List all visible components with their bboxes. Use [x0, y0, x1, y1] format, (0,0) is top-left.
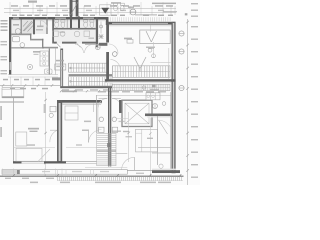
wall: right exterior	[172, 22, 176, 173]
dim tick vertical right room	[148, 42, 154, 58]
wall: mid horizontal right dark	[105, 79, 176, 83]
fixture: washbasin circle	[15, 29, 20, 34]
stair2 center rails	[107, 134, 111, 166]
light fixture symbol corridor	[99, 22, 104, 40]
door leaf br	[159, 120, 171, 134]
wall: closet vertical dark	[60, 49, 63, 89]
top tick texts above wall	[12, 15, 173, 16]
door arc wc-right	[112, 98, 121, 107]
chimney shaft	[70, 0, 79, 17]
wall: br small horizontal	[152, 152, 171, 154]
sill line right of stair2	[116, 153, 127, 155]
fixture rect wc-right	[112, 127, 117, 132]
wall: bedroom left dark	[57, 100, 62, 163]
door arc top-left room	[41, 21, 48, 28]
text above lower rooms	[62, 91, 77, 93]
bottom dim plus ticks	[12, 174, 181, 177]
junction dark block	[52, 77, 60, 80]
wall: living top	[11, 47, 44, 49]
window comb band top-right	[109, 17, 171, 21]
window line br	[138, 147, 171, 149]
top circle marker	[130, 9, 136, 15]
floor wash wc block	[54, 20, 96, 44]
stair walk line	[70, 67, 108, 83]
dim vertical near elevator	[126, 112, 133, 162]
door arc hall 1	[75, 45, 84, 54]
wall: bath mid horizontal	[54, 28, 96, 30]
fixture: sink 2	[74, 31, 89, 37]
wall: lowerleft left	[13, 98, 15, 163]
furniture closet	[65, 106, 78, 120]
wall: br horizontal dark	[145, 114, 172, 118]
right dim ticks	[186, 21, 189, 172]
furniture bed	[16, 132, 27, 146]
floor wash bathroom-left rooms	[11, 20, 48, 35]
top dimension extension ticks	[10, 2, 175, 15]
interior dim thin line	[8, 76, 58, 78]
right small mark	[185, 13, 188, 15]
left rotated text	[0, 106, 2, 137]
interior dim line	[0, 84, 60, 86]
fixture: toilet 2a	[84, 20, 88, 28]
bottom extension lines	[3, 169, 63, 176]
balcony steps left	[0, 88, 24, 102]
wall: living right vertical	[49, 49, 55, 76]
dim line vertical interior	[44, 92, 47, 176]
wall: top exterior (left block)	[9, 17, 108, 21]
symbol circle br	[153, 102, 166, 109]
stair2 landing line	[97, 150, 116, 152]
wall: br inner vertical	[157, 116, 159, 165]
right level circle 2	[179, 49, 184, 54]
slab top edge line	[85, 167, 127, 169]
wall: bottom right dark	[152, 169, 180, 173]
small table bigroom	[127, 40, 133, 44]
fixture: toilet 2b	[90, 20, 94, 28]
room text 1.03	[28, 128, 39, 132]
north/vent triangle marker	[100, 5, 112, 15]
corridor thin line	[96, 94, 171, 96]
stair handrail	[69, 74, 113, 76]
symbol circle bigroom	[113, 52, 118, 57]
text br top	[150, 89, 159, 91]
bottom dimension texts	[5, 178, 171, 184]
door arc bedroom west	[50, 130, 57, 142]
fixture: upper toilet 2	[120, 3, 124, 11]
interior tick bigroom	[146, 25, 155, 48]
symbol circle br low	[159, 164, 163, 168]
stair dimension texts	[60, 89, 111, 92]
small marks right of toilets	[128, 7, 134, 8]
fixture circle wc-left	[99, 117, 103, 121]
stair flight right treads	[113, 66, 171, 78]
door arc wc-left	[98, 98, 107, 107]
wall: left exterior	[9, 17, 11, 75]
wall: wc vertical a	[52, 20, 54, 44]
wall: step between top blocks	[106, 17, 109, 25]
top dimension line 1	[4, 8, 176, 10]
kitchenette top row	[146, 93, 160, 100]
symbol circle right small	[148, 48, 171, 79]
fixture: corridor box	[13, 37, 25, 48]
fixture: small appliance	[45, 69, 53, 74]
fixture: toilet 1b	[61, 20, 65, 28]
wall: bath horizontal	[11, 34, 31, 36]
bedroom inner line	[62, 104, 101, 106]
room text 1.11	[123, 131, 129, 132]
wall: living bottom thin	[8, 74, 58, 76]
wall: wc mid thin	[66, 20, 68, 28]
fixture: table round	[27, 64, 32, 69]
wall: bath vertical 2	[33, 17, 35, 34]
wall: bedroom top dark	[57, 100, 102, 104]
interior dim texts	[3, 79, 50, 90]
door arc bedroom	[89, 130, 102, 143]
elevator shaft walls	[119, 100, 152, 127]
comb ticks bottom	[58, 177, 184, 181]
shelf row under wall	[113, 84, 171, 90]
roof window V symbol	[134, 57, 146, 72]
door arc hall 2	[85, 45, 94, 54]
wall: corridor h below wc	[85, 43, 106, 45]
room text 1.01	[13, 24, 19, 26]
wall: corridor thin double	[96, 95, 98, 133]
label tag left	[49, 106, 56, 117]
door gap arc bigroom	[109, 44, 119, 54]
interior dim vticks	[11, 77, 46, 86]
text above triangle	[111, 2, 121, 4]
top dimension texts	[11, 5, 173, 11]
skylight box	[140, 30, 170, 44]
stair flight lower-left treads	[69, 77, 113, 86]
dim vertical br	[147, 118, 153, 176]
wall: bottom mid thin	[66, 162, 97, 164]
fixture: sink 1	[53, 31, 65, 36]
fixture: toilet 1a	[55, 20, 59, 28]
stair flight upper-left treads	[69, 63, 109, 72]
wall: br inner right face	[170, 92, 172, 171]
top small label left	[28, 1, 37, 3]
wall: corridor dark double	[108, 88, 111, 166]
window bay lower-left	[16, 148, 50, 161]
door arc stair2	[122, 157, 135, 170]
top section label text	[135, 3, 177, 16]
left column texts	[1, 20, 8, 74]
room label box 1.01	[55, 60, 66, 70]
wall: wc horizontal south	[54, 42, 96, 44]
text corridor	[36, 29, 43, 31]
tick line bedroom	[93, 104, 95, 113]
door leaf wc1	[57, 44, 61, 48]
wall: bottom mid-right thin	[127, 170, 152, 174]
window sill line lower	[14, 144, 106, 147]
text wc2	[89, 38, 95, 39]
dim tick above wardrobe	[116, 119, 128, 123]
furniture wardrobe bottom-right	[136, 129, 158, 152]
wall: wc vertical c	[96, 17, 98, 47]
fixture circle wc-right	[112, 117, 116, 121]
fixture: upper toilet 1	[114, 3, 118, 11]
stair2 treads	[97, 134, 116, 166]
elevator cab + cross	[125, 103, 149, 124]
fixture rect wc-left	[99, 127, 104, 132]
right dim vertical line	[187, 19, 189, 185]
corridor dim texts	[98, 91, 166, 93]
door arc bigroom lower	[110, 60, 120, 70]
right column texts	[191, 3, 198, 178]
wall: bigroom left vertical	[106, 22, 109, 80]
terrace slab	[2, 170, 127, 175]
kitchen counter	[40, 51, 49, 66]
text wc1	[60, 32, 66, 33]
wall: top exterior (right block)	[106, 22, 176, 27]
right level circle 3	[179, 85, 184, 90]
top dimension line 2	[4, 12, 176, 14]
ground dimension line	[0, 176, 184, 177]
hatch: shaft room diagonals	[23, 21, 33, 32]
wall: bath vertical 1	[20, 20, 22, 35]
wall: corridor step	[30, 34, 58, 49]
symbol: circle cross hall	[95, 45, 100, 50]
floor wash shaft room	[22, 20, 33, 34]
room text 1.02	[37, 26, 44, 28]
room text 1.04	[82, 121, 91, 131]
paper background	[0, 0, 200, 185]
wall junction corridor south	[99, 43, 108, 46]
wall: shaft wc	[70, 17, 80, 30]
right level circle 1	[179, 31, 184, 36]
wall: mid horizontal left dark	[60, 86, 112, 88]
door leaf wc2	[77, 44, 81, 48]
room text 1.08	[124, 38, 132, 40]
text near stair2	[112, 131, 121, 132]
room text living	[33, 51, 41, 55]
wall: bath vertical 3	[46, 17, 48, 34]
wall: bottom left dark	[13, 161, 66, 163]
